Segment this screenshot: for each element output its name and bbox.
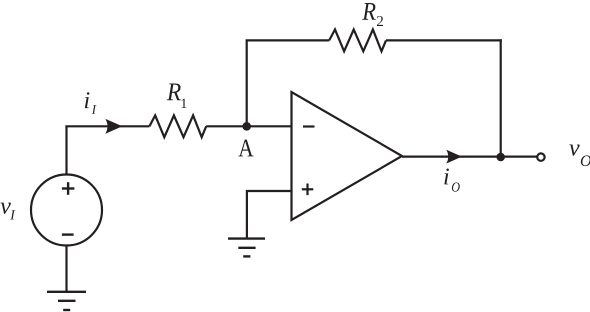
wire vsource top to main node	[65, 126, 67, 174]
label R2 2	[377, 16, 383, 26]
op-amp noninverting input mark	[302, 184, 314, 196]
wire output	[402, 156, 537, 158]
current arrow iI	[105, 119, 122, 134]
label vI v	[1, 203, 11, 214]
op-amp U1	[292, 92, 403, 220]
label iI i	[85, 92, 90, 108]
output node junction dot	[496, 153, 505, 162]
vsource minus terminal mark	[62, 233, 74, 235]
ground G1	[47, 292, 86, 310]
vsource plus terminal mark	[62, 182, 75, 195]
resistor R1	[149, 115, 206, 137]
label iO i	[444, 169, 449, 185]
op-amp inverting input mark	[303, 125, 315, 127]
label vO v	[569, 144, 579, 155]
resistor R2	[329, 30, 386, 52]
voltage source VI circle	[31, 175, 102, 246]
label vO O	[581, 155, 590, 166]
node A junction dot	[242, 122, 251, 131]
wire R1 to op-amp	[206, 125, 291, 127]
wire main horizontal left segment	[65, 125, 149, 127]
label iI I	[92, 105, 97, 114]
wire feedback top right	[386, 39, 502, 41]
ground G2	[228, 239, 265, 257]
output terminal open circle	[537, 153, 544, 160]
label R1 1	[182, 99, 187, 108]
label node A	[238, 140, 253, 157]
wire vsource bottom to ground	[65, 246, 67, 292]
wire feedback right vertical	[500, 39, 502, 157]
current arrow iO	[446, 150, 462, 164]
wire feedback top left	[246, 39, 330, 41]
label iO O	[452, 182, 460, 191]
wire feedback left vertical	[246, 40, 248, 126]
label R1 R	[167, 84, 181, 101]
wire noninverting input	[247, 191, 292, 239]
label R2 R	[362, 3, 375, 20]
label vI I	[10, 210, 15, 219]
